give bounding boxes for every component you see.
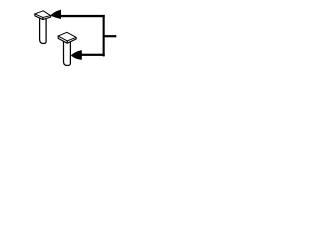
screw terminal B1 shaft xyxy=(40,18,47,44)
screw terminal B2 head top face xyxy=(58,32,76,41)
arrow to screw B2 shaft xyxy=(71,50,82,60)
screw terminal B2 head side rim xyxy=(58,36,76,43)
wire stub to right xyxy=(103,35,116,37)
screw terminal B1 head top face xyxy=(35,11,51,18)
screw terminal B1 head side rim xyxy=(35,14,51,20)
screw terminal B2 shaft xyxy=(64,41,71,65)
arrow to screw B1 head xyxy=(50,10,61,19)
wire from bus to arrow B2 xyxy=(81,54,105,56)
wire from arrow B1 to bus xyxy=(61,15,105,17)
wire vertical bus xyxy=(103,15,105,57)
